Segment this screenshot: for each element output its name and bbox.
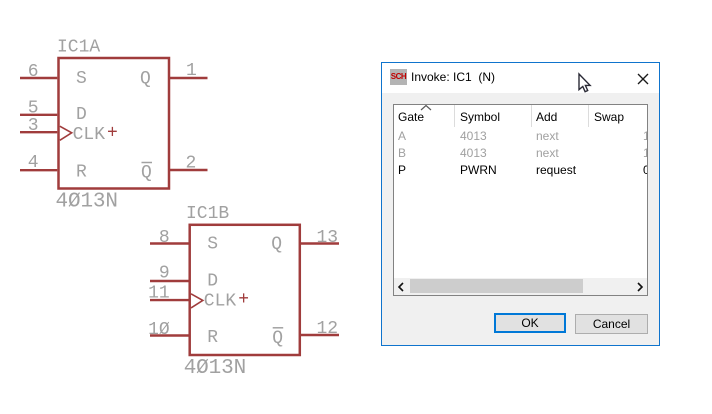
wire pin 4 (R input IC1A) <box>20 169 57 171</box>
svg-text:Q: Q <box>140 69 151 89</box>
svg-text:2: 2 <box>186 154 197 174</box>
IC1B body outline <box>190 225 300 355</box>
wire pin 1 (Q output IC1A) <box>169 77 208 79</box>
wire pin 12 (Qn output IC1B) <box>301 334 339 336</box>
overline of Qn IC1A <box>142 162 153 164</box>
close button X <box>637 73 649 85</box>
row B <box>394 146 647 161</box>
Cancel button <box>575 314 648 334</box>
row A <box>394 129 647 144</box>
wire pin 9 (D input IC1B) <box>150 280 189 282</box>
svg-text:IC1A: IC1A <box>57 38 100 58</box>
svg-text:Q: Q <box>271 235 282 255</box>
wire pin 2 (Qn output IC1A) <box>169 169 208 171</box>
svg-text:IC1B: IC1B <box>186 204 229 224</box>
svg-text:6: 6 <box>28 62 39 82</box>
svg-text:13: 13 <box>317 228 339 248</box>
svg-text:+: + <box>238 290 249 310</box>
svg-text:12: 12 <box>317 319 339 339</box>
scrollbar right arrow <box>636 282 644 292</box>
svg-text:8: 8 <box>159 228 170 248</box>
svg-text:4: 4 <box>28 153 39 173</box>
clock wedge IC1B <box>191 294 203 308</box>
IC1A body outline <box>59 58 170 189</box>
wire pin 8 (S input IC1B) <box>150 242 189 244</box>
svg-text:CLK: CLK <box>204 292 237 312</box>
Invoke dialog window <box>381 62 660 346</box>
wire pin 13 (Q output IC1B) <box>301 242 339 244</box>
svg-text:D: D <box>207 271 218 291</box>
svg-text:4Ø13N: 4Ø13N <box>184 357 247 380</box>
mouse cursor <box>576 72 600 100</box>
svg-text:S: S <box>76 69 87 89</box>
svg-text:CLK: CLK <box>73 125 106 145</box>
svg-text:3: 3 <box>28 116 39 136</box>
flip-flop IC1A (4013N D flip-flop, gate A) <box>59 58 170 189</box>
wire pin 6 (S input IC1A) <box>20 77 57 79</box>
sort indicator caret <box>420 105 432 111</box>
scrollbar left arrow <box>397 282 405 292</box>
svg-text:S: S <box>207 235 218 255</box>
svg-text:11: 11 <box>148 284 170 304</box>
title text <box>411 70 495 84</box>
overline of Qn IC1B <box>273 327 284 329</box>
scrollbar thumb <box>410 279 583 293</box>
header separator lines <box>454 105 455 127</box>
svg-text:R: R <box>207 328 218 348</box>
svg-text:1Ø: 1Ø <box>148 320 170 340</box>
svg-text:R: R <box>76 163 87 183</box>
wire pin 11 (CLK input IC1B) <box>150 299 189 301</box>
gate list table <box>393 104 648 296</box>
svg-text:4Ø13N: 4Ø13N <box>56 191 119 214</box>
OK button <box>494 313 566 333</box>
horizontal scrollbar <box>394 278 647 295</box>
svg-text:+: + <box>107 124 118 144</box>
svg-text:1: 1 <box>186 61 197 81</box>
wire pin 5 (D input IC1A) <box>20 114 57 116</box>
clock wedge IC1A <box>60 126 72 140</box>
flip-flop IC1B (4013N D flip-flop, gate B) <box>190 225 300 355</box>
svg-text:Q: Q <box>272 328 283 348</box>
wire pin 10 (R input IC1B) <box>150 334 189 336</box>
header labels <box>398 110 424 124</box>
title bar <box>382 63 659 93</box>
svg-text:Q: Q <box>141 163 152 183</box>
svg-text:9: 9 <box>159 264 170 284</box>
svg-text:D: D <box>76 105 87 125</box>
row P <box>394 163 647 178</box>
wire pin 3 (CLK input IC1A) <box>20 131 57 133</box>
SCH app icon <box>390 69 407 85</box>
